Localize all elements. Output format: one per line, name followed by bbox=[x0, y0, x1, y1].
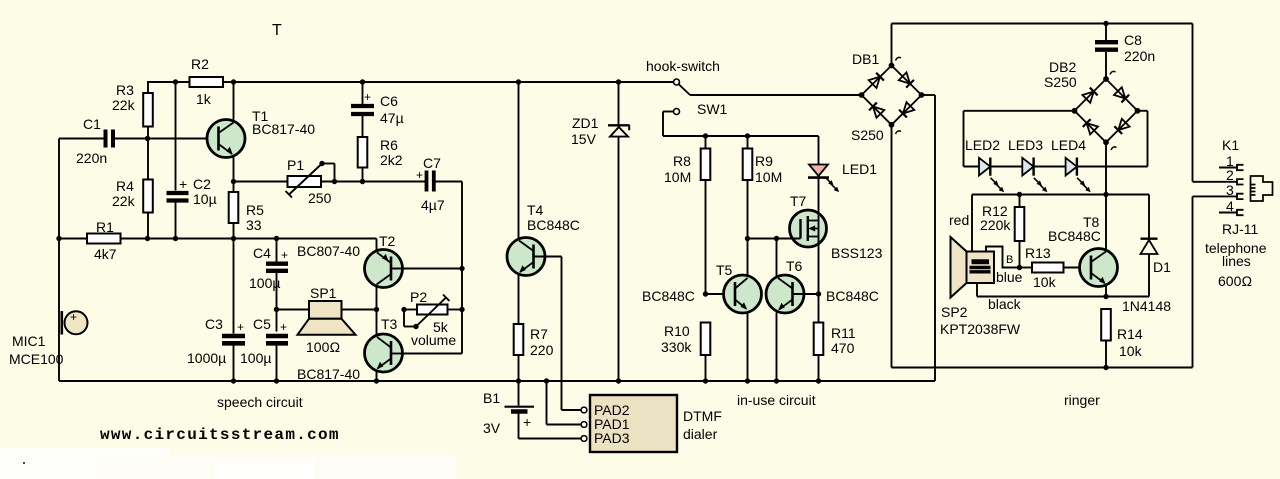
svg-text:lines: lines bbox=[1222, 253, 1251, 269]
label DB1 S250 bbox=[851, 51, 884, 143]
svg-text:+: + bbox=[364, 90, 371, 104]
svg-text:C5: C5 bbox=[253, 316, 271, 332]
label + C6 47µ bbox=[364, 90, 404, 126]
svg-text:DB1: DB1 bbox=[852, 51, 879, 67]
label B1 3V + bbox=[483, 390, 531, 436]
label DTMF dialer bbox=[683, 408, 722, 442]
capacitor C1 bbox=[59, 130, 219, 148]
node P1 wiper dot bbox=[319, 161, 324, 166]
connector K1 pin 1 bbox=[1219, 165, 1244, 170]
microphone MIC1 bbox=[62, 311, 88, 335]
wire ringer top rail bbox=[892, 24, 1193, 182]
svg-text:blue: blue bbox=[996, 269, 1023, 285]
node T5 base dot bbox=[703, 291, 708, 296]
connector K1 pin 2 bbox=[1193, 179, 1244, 184]
svg-text:T7: T7 bbox=[790, 193, 807, 209]
svg-text:K1: K1 bbox=[1222, 137, 1239, 153]
node dots inner top line bbox=[1017, 192, 1109, 197]
label LED2 LED3 LED4 bbox=[965, 137, 1086, 153]
label T3 BC817-40 bbox=[297, 316, 398, 382]
transistor T3 BC817-40 bbox=[365, 310, 404, 382]
svg-text:D1: D1 bbox=[1153, 259, 1171, 275]
svg-text:R11: R11 bbox=[831, 325, 856, 341]
svg-text:250: 250 bbox=[308, 190, 332, 206]
wire node line y=238.5 (R1 bias line) bbox=[59, 238, 377, 240]
svg-text:LED2: LED2 bbox=[965, 137, 1000, 153]
node P2 dots bbox=[401, 307, 418, 329]
node dots on emitter line bbox=[231, 179, 365, 184]
label C4 + 100µ bbox=[249, 245, 288, 291]
node dots on bottom rail bbox=[231, 378, 821, 383]
svg-text:2k2: 2k2 bbox=[380, 152, 403, 168]
RJ-11 jack icon bbox=[1251, 176, 1273, 201]
svg-text:3: 3 bbox=[1226, 182, 1234, 198]
capacitor C8 bbox=[1095, 24, 1118, 80]
svg-text:10M: 10M bbox=[664, 169, 691, 185]
svg-text:BC817-40: BC817-40 bbox=[252, 121, 315, 137]
svg-text:LED1: LED1 bbox=[842, 161, 877, 177]
label in-use circuit bbox=[737, 392, 816, 408]
label speech circuit bbox=[217, 394, 303, 410]
svg-text:T2: T2 bbox=[379, 233, 396, 249]
label T1 BC817-40 bbox=[252, 108, 315, 137]
svg-text:in-use circuit: in-use circuit bbox=[737, 392, 816, 408]
wire left vertical from C1 to bottom rail bbox=[58, 139, 60, 382]
label MIC1 + bbox=[9, 310, 77, 367]
label R12 220k bbox=[980, 203, 1011, 233]
resistor R3 bbox=[143, 82, 153, 139]
node C8 dot bbox=[1103, 21, 1108, 26]
svg-text:T3: T3 bbox=[381, 316, 398, 332]
zener diode ZD1 bbox=[608, 82, 630, 381]
LED LED2 bbox=[979, 158, 1006, 194]
wire blue lead SP2 to node B bbox=[986, 247, 1020, 268]
svg-text:black: black bbox=[988, 296, 1022, 312]
svg-text:3V: 3V bbox=[483, 420, 501, 436]
label T2 BC807-40 bbox=[297, 233, 396, 259]
svg-text:RJ-11: RJ-11 bbox=[1222, 221, 1259, 237]
transistor T5 BC848C bbox=[706, 275, 762, 381]
svg-text:+: + bbox=[281, 248, 288, 262]
node T8 emitter dot bbox=[1103, 294, 1108, 299]
label R11 470 bbox=[831, 325, 856, 356]
svg-text:SW1: SW1 bbox=[697, 101, 728, 117]
LED LED3 bbox=[1022, 158, 1049, 194]
svg-text:T6: T6 bbox=[786, 258, 803, 274]
svg-text:speech circuit: speech circuit bbox=[217, 394, 303, 410]
svg-text:220n: 220n bbox=[76, 150, 107, 166]
svg-text:R8: R8 bbox=[673, 153, 691, 169]
label K1 RJ-11 bbox=[1222, 137, 1259, 237]
svg-text:B: B bbox=[1006, 254, 1013, 266]
svg-text:LED4: LED4 bbox=[1051, 137, 1086, 153]
node DB1 vertex dots bbox=[859, 63, 925, 128]
capacitor C2 bbox=[167, 82, 189, 239]
label D1 1N4148 bbox=[1122, 259, 1171, 314]
wire DB2 bottom to ringer circuit bbox=[1105, 142, 1107, 194]
svg-text:BC848C: BC848C bbox=[1048, 228, 1101, 244]
svg-text:R13: R13 bbox=[1025, 245, 1051, 261]
transistor T8 BC848C bbox=[1080, 195, 1118, 297]
svg-text:4: 4 bbox=[1226, 198, 1234, 214]
svg-text:SP2: SP2 bbox=[941, 304, 968, 320]
wire switch to DB1 bbox=[690, 94, 862, 96]
label C3 + 1000µ bbox=[187, 316, 244, 366]
label P2 5k volume bbox=[410, 289, 456, 348]
watermark www.circuitsstream.com bbox=[100, 426, 340, 444]
svg-text:15V: 15V bbox=[571, 131, 597, 147]
label ringer bbox=[1064, 392, 1100, 408]
label R10 330k bbox=[661, 323, 692, 355]
svg-text:10k: 10k bbox=[1033, 274, 1057, 290]
LED LED1 bbox=[808, 136, 841, 211]
svg-text:R5: R5 bbox=[246, 202, 264, 218]
transistor T2 BC807-40 bbox=[365, 239, 463, 310]
wire ringer inner top line bbox=[972, 195, 1149, 253]
label SP2 wires red blue black B bbox=[949, 212, 1023, 312]
label R14 10k bbox=[1117, 326, 1143, 359]
node T2/T3/SP1 junction bbox=[374, 307, 379, 312]
resistor R10 bbox=[701, 323, 711, 382]
DTMF dialer box bbox=[581, 395, 677, 452]
node T6 base / LED1 / R11 junction bbox=[816, 291, 821, 296]
node dots on y=136 line bbox=[703, 133, 750, 138]
label T7 BSS123 bbox=[790, 193, 883, 261]
svg-text:ringer: ringer bbox=[1064, 392, 1100, 408]
svg-text:C1: C1 bbox=[83, 116, 101, 132]
capacitor C6 bbox=[351, 82, 374, 137]
resistor R7 bbox=[514, 324, 524, 381]
label R4 22k bbox=[112, 178, 136, 209]
potentiometer P2 5k volume bbox=[404, 295, 462, 327]
resistor R11 bbox=[814, 294, 824, 381]
svg-text:R7: R7 bbox=[530, 326, 548, 342]
wire PAD1 ground wire bbox=[547, 381, 582, 425]
resistor R14 bbox=[1101, 309, 1111, 368]
svg-text:1k: 1k bbox=[196, 91, 212, 107]
wire LED chain box bbox=[964, 111, 1148, 167]
svg-text:1000µ: 1000µ bbox=[187, 350, 226, 366]
resistor R13 bbox=[1020, 263, 1092, 273]
svg-text:R3: R3 bbox=[116, 82, 134, 98]
connector K1 pin 4 bbox=[1219, 210, 1244, 215]
MOSFET T7 BSS123 bbox=[748, 210, 827, 294]
svg-text:R6: R6 bbox=[380, 137, 398, 153]
resistor R4 bbox=[143, 139, 153, 239]
label T4 BC848C bbox=[527, 202, 580, 233]
label P1 250 bbox=[287, 157, 332, 206]
svg-text:P2: P2 bbox=[410, 289, 427, 305]
resistor R5 bbox=[229, 192, 239, 239]
svg-text:MIC1: MIC1 bbox=[12, 333, 46, 349]
svg-text:+: + bbox=[416, 168, 423, 182]
svg-text:R4: R4 bbox=[116, 178, 134, 194]
wire emitter node line y=181.5 bbox=[234, 181, 426, 183]
svg-text:+: + bbox=[237, 320, 244, 334]
speaker SP1 bbox=[277, 301, 377, 335]
label PAD2 PAD1 PAD3 bbox=[594, 402, 630, 446]
svg-text:100Ω: 100Ω bbox=[306, 339, 340, 355]
svg-text:BC848C: BC848C bbox=[642, 288, 695, 304]
capacitor C3 bbox=[222, 239, 245, 382]
svg-text:S250: S250 bbox=[851, 127, 884, 143]
transistor T1 BC817-40 bbox=[207, 82, 245, 192]
resistor R12 bbox=[1015, 195, 1025, 268]
svg-text:S250: S250 bbox=[1044, 74, 1077, 90]
svg-text:10M: 10M bbox=[755, 169, 782, 185]
switch SW1 hook-switch bbox=[663, 79, 690, 136]
svg-text:R14: R14 bbox=[1117, 326, 1143, 342]
potentiometer P1 250 bbox=[286, 164, 335, 198]
wire bottom ground rail bbox=[59, 95, 935, 381]
svg-text:C4: C4 bbox=[253, 245, 271, 261]
svg-text:10k: 10k bbox=[1119, 343, 1143, 359]
svg-text:10µ: 10µ bbox=[193, 191, 217, 207]
svg-text:600Ω: 600Ω bbox=[1218, 273, 1252, 289]
battery B1 3V bbox=[505, 381, 582, 439]
label T6 bbox=[786, 258, 879, 304]
svg-text:4µ7: 4µ7 bbox=[421, 197, 445, 213]
svg-text:C2: C2 bbox=[193, 176, 211, 192]
label R13 10k bbox=[1025, 245, 1057, 290]
capacitor C4 bbox=[266, 239, 288, 332]
svg-text:220n: 220n bbox=[1124, 48, 1155, 64]
node dots x=462 bbox=[459, 266, 464, 312]
wire black lead SP2 to emitter line bbox=[976, 283, 978, 297]
speaker SP2 KPT2038FW bbox=[951, 237, 995, 298]
svg-text:R9: R9 bbox=[755, 153, 773, 169]
svg-text:2: 2 bbox=[1226, 167, 1234, 183]
label R1 4k7 bbox=[94, 219, 117, 262]
label ZD1 15V bbox=[571, 115, 599, 147]
resistor R6 bbox=[358, 137, 368, 182]
svg-text:www.circuitsstream.com: www.circuitsstream.com bbox=[100, 426, 340, 444]
label R6 2k2 bbox=[380, 137, 403, 168]
svg-text:DTMF: DTMF bbox=[683, 408, 722, 424]
svg-text:+: + bbox=[523, 414, 531, 430]
label T bbox=[272, 22, 282, 39]
label R8 10M bbox=[664, 153, 691, 185]
label hook-switch SW1 bbox=[646, 58, 728, 117]
svg-text:22k: 22k bbox=[112, 97, 136, 113]
transistor T6 BC848C bbox=[766, 239, 819, 382]
LED LED4 bbox=[1066, 158, 1093, 194]
svg-text:red: red bbox=[949, 212, 969, 228]
svg-text:MCE100: MCE100 bbox=[9, 351, 64, 367]
svg-text:100µ: 100µ bbox=[249, 275, 280, 291]
svg-text:T: T bbox=[272, 22, 282, 39]
label R9 10M bbox=[755, 153, 782, 185]
resistor R2 bbox=[190, 77, 224, 87]
label T8 BC848C bbox=[1048, 214, 1101, 244]
label LED1 bbox=[842, 161, 877, 177]
resistor R9 bbox=[743, 136, 753, 276]
wire top supply rail speech circuit bbox=[147, 81, 674, 83]
svg-text:PAD3: PAD3 bbox=[594, 430, 630, 446]
svg-text:R1: R1 bbox=[96, 219, 114, 235]
label R2 1k bbox=[191, 56, 212, 107]
svg-text:T4: T4 bbox=[527, 202, 544, 218]
svg-text:BC848C: BC848C bbox=[527, 217, 580, 233]
label C1 220n bbox=[76, 116, 107, 166]
node junction dots on top rail bbox=[173, 79, 621, 84]
label R5 33 bbox=[246, 202, 264, 233]
svg-text:B1: B1 bbox=[483, 390, 500, 406]
wire R8/R9 top line y=136 bbox=[663, 135, 819, 137]
connector K1 pin 3 bbox=[1193, 194, 1244, 199]
svg-text:+: + bbox=[280, 320, 287, 334]
svg-text:33: 33 bbox=[246, 217, 262, 233]
label DB2 S250 bbox=[1044, 59, 1077, 90]
svg-text:P1: P1 bbox=[287, 157, 304, 173]
svg-text:330k: 330k bbox=[661, 339, 692, 355]
node B junction dot bbox=[1017, 265, 1022, 270]
svg-text:C7: C7 bbox=[423, 155, 441, 171]
label K1 pin numbers bbox=[1226, 153, 1234, 214]
label SP2 KPT2038FW bbox=[940, 304, 1021, 337]
label R3 22k bbox=[112, 82, 136, 113]
resistor R8 bbox=[701, 136, 711, 294]
bridge rectifier DB2 S250 bbox=[1075, 71, 1138, 150]
svg-text:BSS123: BSS123 bbox=[831, 245, 883, 261]
svg-text:1N4148: 1N4148 bbox=[1122, 298, 1171, 314]
wire emitter line y=296.5 bbox=[977, 296, 1149, 298]
node dots gate line bbox=[745, 236, 779, 241]
svg-text:47µ: 47µ bbox=[380, 110, 404, 126]
svg-text:BC817-40: BC817-40 bbox=[297, 366, 360, 382]
svg-text:+: + bbox=[70, 310, 77, 324]
svg-text:220k: 220k bbox=[980, 217, 1011, 233]
svg-text:KPT2038FW: KPT2038FW bbox=[940, 321, 1021, 337]
svg-text:220: 220 bbox=[530, 342, 554, 358]
svg-text:BC807-40: BC807-40 bbox=[297, 243, 360, 259]
diode D1 1N4148 bbox=[1141, 195, 1158, 297]
svg-text:LED3: LED3 bbox=[1008, 137, 1043, 153]
svg-text:ZD1: ZD1 bbox=[572, 115, 599, 131]
wire C7 vertical to T2/T3 x=462 bbox=[402, 182, 462, 354]
resistor R1 bbox=[87, 234, 121, 244]
svg-text:C8: C8 bbox=[1124, 32, 1142, 48]
svg-text:22k: 22k bbox=[112, 193, 136, 209]
label + C7 4µ7 bbox=[416, 155, 445, 213]
svg-text:470: 470 bbox=[831, 340, 855, 356]
label R7 220 bbox=[530, 326, 554, 358]
svg-text:dialer: dialer bbox=[683, 426, 718, 442]
label telephone lines 600 bbox=[1205, 240, 1267, 289]
svg-text:BC848C: BC848C bbox=[826, 288, 879, 304]
svg-text:R2: R2 bbox=[191, 56, 209, 72]
svg-text:hook-switch: hook-switch bbox=[646, 58, 720, 74]
svg-text:4k7: 4k7 bbox=[94, 246, 117, 262]
node dots on bias line bbox=[56, 236, 279, 241]
svg-text:SP1: SP1 bbox=[310, 285, 337, 301]
capacitor C5 bbox=[266, 336, 288, 381]
svg-text:C6: C6 bbox=[380, 93, 398, 109]
node DB2 vertex dots bbox=[1072, 76, 1141, 145]
label C5 + 100µ bbox=[240, 316, 287, 366]
label + C2 10µ bbox=[179, 176, 217, 207]
svg-text:R10: R10 bbox=[664, 323, 690, 339]
transistor T4 BC848C bbox=[507, 82, 581, 410]
svg-text:+: + bbox=[179, 176, 187, 192]
svg-text:T5: T5 bbox=[716, 262, 733, 278]
bridge rectifier DB1 S250 bbox=[862, 24, 922, 368]
node R14 bottom dot bbox=[1103, 365, 1108, 370]
svg-text:C3: C3 bbox=[205, 316, 223, 332]
label SP1 100Ω bbox=[306, 285, 340, 355]
capacitor C7 bbox=[427, 171, 463, 192]
svg-text:100µ: 100µ bbox=[240, 350, 271, 366]
svg-text:DB2: DB2 bbox=[1049, 59, 1076, 75]
wire ringer bottom rail bbox=[892, 197, 1193, 368]
node T1 base line junction dots bbox=[145, 136, 150, 141]
node SP1 junction dot bbox=[274, 307, 279, 312]
label T5 bbox=[642, 262, 733, 304]
label C8 220n bbox=[1124, 32, 1155, 64]
svg-text:volume: volume bbox=[411, 332, 456, 348]
